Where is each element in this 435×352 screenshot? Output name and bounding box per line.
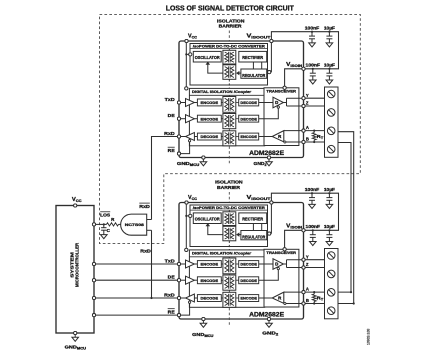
regulator to T2 wire with arrow (U2 bottom) [237, 234, 241, 236]
power transformer T1 (U2 bottom) [223, 212, 236, 226]
DE pin (U2 bottom) [177, 279, 180, 282]
DE buffer (U2 bottom) [186, 276, 195, 284]
digital isolation title rule (U1 top) [189, 94, 264, 96]
TxD input wire (U1 top) [179, 102, 186, 104]
loss-of-signal detector dashed boundary [100, 14, 361, 243]
svg-text:RxD: RxD [164, 131, 175, 136]
svg-text:RxD: RxD [140, 249, 151, 254]
MCU-TxD wire [94, 263, 179, 265]
svg-text:Z: Z [306, 262, 309, 267]
ENCODE box (U2 bottom) [197, 277, 221, 284]
svg-text:isoPOWER DC-TO-DC CONVERTER: isoPOWER DC-TO-DC CONVERTER [193, 44, 265, 49]
isoPower DC-to-DC converter box (U2 bottom) [190, 205, 268, 247]
driver D triangle (U1 top) [259, 102, 273, 104]
RE internal wire (U1 top) [179, 142, 190, 154]
DE input wire (U1 top) [179, 118, 186, 120]
Z pin (U1 top) [302, 104, 305, 107]
resistor R [107, 223, 119, 226]
svg-text:10902-108: 10902-108 [367, 329, 371, 345]
rectifier-regulator wires (U1 top) [252, 62, 254, 69]
B pin (U2 bottom) [302, 302, 305, 305]
svg-text:100nF: 100nF [306, 224, 321, 229]
isoPower output pin (U2 bottom) [268, 232, 271, 235]
100nF cap C3 (U1 top) [312, 69, 314, 73]
RxD pin (U2 bottom) [177, 296, 180, 299]
receiver B input bubble and wire (U2 bottom) [284, 303, 286, 305]
svg-text:100nF: 100nF [305, 187, 320, 192]
RxD buffer enable circle (U1 top) [189, 140, 191, 142]
TRANSCEIVER box (U1 top) [264, 88, 299, 146]
svg-text:OSCILLATOR: OSCILLATOR [195, 216, 220, 221]
GND2 ground symbol (U2 bottom) [268, 319, 270, 323]
svg-text:DIGITAL ISOLATION iCoupler: DIGITAL ISOLATION iCoupler [192, 89, 251, 94]
A wire to terminal (U1 top) [304, 130, 325, 132]
B wire to terminal (U2 bottom) [304, 303, 325, 305]
Y pin (U1 top) [302, 97, 305, 100]
terminal screw 4 (U2 bottom) [327, 307, 335, 315]
channel transformer (U2 bottom row 1) [221, 263, 223, 265]
rectifier-regulator wires (U2 bottom) [252, 224, 254, 231]
channel transformer (U1 top row 1) [221, 102, 223, 104]
RE pin (U1 top) [177, 152, 180, 155]
DECODE box (U1 top) [197, 133, 221, 140]
VISOOUT pin (U2 bottom) [270, 201, 273, 204]
transceiver VISOIN pin circle (U2 bottom) [283, 248, 286, 251]
regulator to T2 wire with arrow (U1 top) [237, 72, 241, 74]
RxD-bar wire from top chip [152, 137, 180, 220]
oscillator supply wire (U1 top) [186, 53, 189, 55]
ENCODE box (U1 top) [197, 115, 221, 122]
100nF cap C3 (U2 bottom) [312, 230, 314, 234]
TxD buffer-to-ENCODE wire (U1 top) [194, 102, 197, 104]
LOS node junction [103, 223, 105, 225]
termination resistor RT (U1 top) [313, 130, 315, 132]
terminal screw 4 (U1 top) [327, 145, 335, 153]
TxD buffer-to-ENCODE wire (U2 bottom) [194, 263, 197, 265]
DE pin (U1 top) [177, 117, 180, 120]
svg-text:DE: DE [168, 113, 175, 118]
isolation barrier dashed line (U2 bottom) [228, 192, 230, 203]
svg-text:100nF: 100nF [306, 62, 321, 67]
svg-text:RE: RE [168, 310, 175, 315]
transformer stack stubs (U1 top) [228, 112, 230, 113]
B pin (U1 top) [302, 140, 305, 143]
svg-text:A: A [306, 125, 309, 130]
svg-text:BARRIER: BARRIER [217, 185, 241, 190]
oscillator supply pin circle (U2 bottom) [189, 214, 192, 217]
svg-text:DECODE: DECODE [240, 117, 257, 121]
channel transformer (U1 top row 2) [221, 118, 223, 120]
svg-text:ADM2682E: ADM2682E [249, 311, 285, 318]
receiver A input wire (U1 top) [284, 130, 304, 132]
TxD input wire (U2 bottom) [179, 263, 186, 265]
TxD pin (U1 top) [177, 101, 180, 104]
isolation barrier dashed line (U1 top) [228, 31, 230, 42]
svg-text:RE: RE [168, 148, 175, 153]
receiver B input bubble and wire (U1 top) [284, 141, 286, 143]
ENCODE box (U1 top) [197, 99, 221, 106]
svg-text:ISOLATION: ISOLATION [215, 179, 243, 184]
RxD wire to bottom chip [151, 230, 153, 298]
DE input wire (U2 bottom) [179, 279, 186, 281]
svg-text:10µF: 10µF [324, 224, 335, 229]
svg-text:LOS: LOS [100, 213, 110, 218]
terminal screw 1 (U2 bottom) [327, 252, 335, 260]
Y wire to terminal (U1 top) [304, 97, 325, 99]
feedback transformer T2 (U2 bottom) [223, 226, 236, 241]
MCU-RE wire [94, 314, 179, 316]
isoPower title rule (U2 bottom) [190, 209, 268, 211]
barrier ticks below T2 (U2 bottom) [228, 241, 230, 250]
oscillator box (U1 top) [193, 51, 221, 62]
DECODE box (U1 top) [239, 115, 259, 122]
svg-text:D: D [275, 100, 278, 105]
terminal screw 2 (U1 top) [327, 109, 335, 117]
svg-text:B: B [306, 137, 309, 142]
receiver A input wire (U2 bottom) [284, 291, 304, 293]
svg-text:BARRIER: BARRIER [219, 24, 243, 29]
isoPower DC-to-DC converter box (U1 top) [190, 44, 268, 86]
ENCODE box (U2 bottom) [197, 261, 221, 268]
isoPower output pin (U1 top) [268, 71, 271, 74]
10uF cap C2 (U1 top) [328, 32, 330, 36]
barrier ticks below T2 (U1 top) [228, 79, 230, 88]
Y wire to terminal (U2 bottom) [304, 259, 325, 261]
channel transformer (U2 bottom row 2) [221, 279, 223, 281]
svg-text:100nF: 100nF [305, 26, 320, 31]
RxD buffer enable circle (U2 bottom) [189, 301, 191, 303]
bus wire B (top) to A (bottom) [338, 143, 352, 293]
feedback wire to oscillator (U1 top) [208, 64, 224, 73]
barrier tick above channel transformer 1 (U2 bottom) [228, 257, 230, 258]
svg-text:ENCODE: ENCODE [201, 263, 219, 267]
terminal screw 1 (U1 top) [327, 90, 335, 98]
regulator box (U2 bottom) [241, 231, 267, 240]
DECODE box (U2 bottom) [239, 277, 259, 284]
A pin (U1 top) [302, 129, 305, 132]
svg-text:isoPOWER DC-TO-DC CONVERTER: isoPOWER DC-TO-DC CONVERTER [193, 205, 265, 210]
svg-text:10µF: 10µF [324, 62, 335, 67]
GND2 pin (U2 bottom) [267, 317, 270, 320]
GND_MCU pin (U2 bottom) [202, 317, 205, 320]
svg-text:DECODE: DECODE [240, 279, 257, 283]
oscillator box (U2 bottom) [193, 213, 221, 224]
pin circles (redrawn on top of wires) [185, 39, 188, 42]
barrier tick above T1 (U1 top) [228, 49, 230, 51]
svg-text:10µF: 10µF [324, 26, 335, 31]
bus junction dot at bottom B row [353, 302, 355, 304]
svg-text:TxD: TxD [165, 97, 176, 102]
TxD buffer (U1 top) [186, 99, 195, 107]
DE buffer-to-ENCODE wire (U2 bottom) [194, 279, 197, 281]
VCC junction (U2 bottom) [185, 215, 187, 217]
driver enable wire (U1 top) [277, 106, 279, 108]
svg-text:RECTIFIER: RECTIFIER [242, 216, 263, 221]
GND2 pin (U1 top) [267, 156, 270, 159]
GND_MCU ground symbol (U2 bottom) [202, 319, 204, 323]
ADM2682E package outline (U2 bottom) [179, 203, 304, 320]
Y pin (U2 bottom) [302, 258, 305, 261]
svg-text:Y: Y [306, 254, 309, 259]
MCU DE pin [92, 279, 95, 282]
digital isolation box (U1 top) [189, 88, 264, 145]
VCC internal wire (U2 bottom) [185, 203, 187, 250]
svg-text:REGULATOR: REGULATOR [242, 235, 265, 240]
svg-text:Y: Y [306, 93, 309, 98]
oscillator supply wire (U2 bottom) [186, 215, 189, 217]
VISOIN wire (U2 bottom) [285, 230, 304, 248]
B wire to terminal (U1 top) [304, 141, 325, 143]
DE buffer (U1 top) [186, 115, 195, 123]
RxD buffer-to-DECODE wire (U1 top) [194, 136, 197, 138]
svg-text:REGULATOR: REGULATOR [242, 73, 265, 78]
VISOIN pin (U1 top) [302, 67, 305, 70]
channel transformer (U1 top row 3) [221, 136, 223, 138]
RxD input wire (U2 bottom) [179, 297, 186, 299]
oscillator supply pin circle (U1 top) [189, 53, 192, 56]
svg-text:RxD: RxD [139, 204, 150, 209]
C ground symbol [101, 235, 108, 239]
isoPower title rule (U1 top) [190, 48, 268, 50]
barrier tick above T1 (U2 bottom) [228, 210, 230, 212]
10uF cap C4 (U1 top) [328, 69, 330, 73]
VCC pin (U2 bottom) [185, 201, 188, 204]
svg-text:MICROCONTROLLER: MICROCONTROLLER [75, 242, 80, 287]
driver D triangle (U2 bottom) [259, 263, 273, 265]
RE pin (U2 bottom) [177, 314, 180, 317]
VISOOUT external rail (U2 bottom) [271, 193, 338, 230]
svg-text:A: A [306, 287, 309, 292]
ENCODE box (U2 bottom) [239, 295, 259, 302]
100nF cap C1 (U1 top) [311, 32, 313, 36]
DECODE box (U2 bottom) [197, 295, 221, 302]
GND_MCU ground symbol (U1 top) [202, 158, 204, 162]
svg-text:ENCODE: ENCODE [201, 117, 219, 121]
svg-text:DE: DE [168, 275, 175, 280]
svg-text:ENCODE: ENCODE [201, 101, 219, 105]
power transformer T1 (U1 top) [223, 50, 236, 64]
RxD input wire (U1 top) [179, 136, 186, 138]
digital isolation title rule (U2 bottom) [189, 256, 264, 258]
svg-text:DECODE: DECODE [201, 297, 219, 301]
Z wire to terminal (U2 bottom) [304, 267, 325, 269]
driver enable wire (U2 bottom) [277, 268, 279, 270]
svg-text:LOSS OF SIGNAL DETECTOR CIRCUI: LOSS OF SIGNAL DETECTOR CIRCUIT [166, 3, 295, 12]
bus junction dot at bottom A row [350, 291, 352, 293]
gate input stub 2 [147, 229, 152, 231]
VCC internal wire (U1 top) [185, 41, 187, 88]
RxD junction at MCU wire [150, 297, 152, 299]
RxD buffer-to-DECODE wire (U2 bottom) [194, 297, 197, 299]
svg-text:ADM2682E: ADM2682E [249, 150, 285, 157]
svg-text:ENCODE: ENCODE [201, 279, 219, 283]
driver output wires to Y Z (U1 top) [283, 102, 286, 104]
svg-text:ENCODE: ENCODE [240, 297, 257, 301]
screw terminal block (U2 bottom) [325, 249, 339, 319]
feedback transformer T2 (U1 top) [223, 65, 236, 80]
terminal screw 2 (U2 bottom) [327, 270, 335, 278]
regulator box (U1 top) [241, 69, 267, 78]
terminal screw 3 (U2 bottom) [327, 289, 335, 297]
svg-text:D: D [275, 262, 278, 267]
bus wire A (top) to B (bottom) [338, 132, 354, 304]
channel transformer (U2 bottom row 3) [221, 297, 223, 299]
svg-text:DIGITAL ISOLATION iCoupler: DIGITAL ISOLATION iCoupler [192, 251, 251, 256]
feedback wire to oscillator (U2 bottom) [208, 225, 224, 234]
ENCODE box (U1 top) [239, 133, 259, 140]
svg-text:R: R [278, 134, 281, 139]
VISOOUT internal wire (U2 bottom) [268, 233, 272, 235]
RxD pin (U1 top) [177, 135, 180, 138]
screw terminal block (U1 top) [325, 87, 339, 157]
DECODE box (U1 top) [239, 99, 259, 106]
svg-text:DECODE: DECODE [240, 263, 257, 267]
digital isolation box (U2 bottom) [189, 250, 264, 307]
ADM2682E package outline (U1 top) [179, 41, 304, 158]
10uF cap C4 (U2 bottom) [328, 230, 330, 234]
VCC junction (U1 top) [185, 53, 187, 55]
VISOOUT pin (U1 top) [270, 39, 273, 42]
DE buffer-to-ENCODE wire (U1 top) [194, 118, 197, 120]
svg-text:R: R [278, 296, 281, 301]
rectifier box (U1 top) [239, 51, 267, 62]
RxD buffer (U2 bottom) [186, 294, 195, 302]
TRANSCEIVER box (U2 bottom) [264, 249, 299, 307]
svg-text:B: B [306, 298, 309, 303]
MCU RxD pin [92, 296, 95, 299]
digital isolation VCC pin circle (U1 top) [185, 87, 188, 90]
transceiver VISOIN pin circle (U1 top) [283, 86, 286, 89]
MCU LOS pin [92, 223, 95, 226]
RxD buffer (U1 top) [186, 133, 195, 141]
svg-text:TxD: TxD [165, 258, 176, 263]
GND2 ground symbol (U1 top) [268, 158, 270, 162]
receiver R triangle (U2 bottom) [259, 297, 273, 299]
A wire to terminal (U2 bottom) [304, 291, 325, 293]
driver output wires to Y Z (U2 bottom) [283, 263, 286, 265]
terminal screw 3 (U1 top) [327, 127, 335, 135]
svg-text:10µF: 10µF [324, 187, 335, 192]
barrier dashes below digital isolation box (U1 top) [228, 146, 230, 164]
VISOIN wire (U1 top) [285, 69, 304, 87]
100nF cap C1 (U2 bottom) [311, 193, 313, 197]
svg-text:DECODE: DECODE [201, 135, 219, 139]
svg-text:RxD: RxD [164, 292, 175, 297]
svg-text:NC7S08: NC7S08 [125, 222, 145, 227]
MCU ground pin [74, 331, 77, 334]
Z pin (U2 bottom) [302, 266, 305, 269]
RE internal wire (U2 bottom) [179, 303, 190, 315]
svg-text:Z: Z [306, 101, 309, 106]
GND_MCU pin (U1 top) [202, 156, 205, 159]
termination resistor RT (U2 bottom) [313, 291, 315, 293]
barrier tick above channel transformer 1 (U1 top) [228, 95, 230, 96]
gate input stub 1 [147, 219, 152, 221]
AND gate NC7S08 (mirrored) [121, 214, 147, 235]
MCU RE pin [92, 314, 95, 317]
MCU TxD pin [92, 262, 95, 265]
digital isolation VCC pin circle (U2 bottom) [185, 248, 188, 251]
VCC pin (U1 top) [185, 39, 188, 42]
10uF cap C2 (U2 bottom) [328, 193, 330, 197]
R to gate wire [119, 223, 121, 225]
DECODE box (U2 bottom) [239, 261, 259, 268]
MCU-DE wire [94, 279, 179, 281]
barrier dashes below digital isolation box (U2 bottom) [228, 308, 230, 326]
MCU VCC pin [74, 204, 77, 207]
svg-text:OSCILLATOR: OSCILLATOR [195, 55, 220, 60]
VISOOUT internal wire (U1 top) [268, 71, 272, 73]
TxD pin (U2 bottom) [177, 262, 180, 265]
VISOOUT external rail (U1 top) [271, 32, 338, 69]
transformer stack stubs (U2 bottom) [228, 274, 230, 275]
rectifier box (U2 bottom) [239, 213, 267, 224]
svg-text:TRANSCEIVER: TRANSCEIVER [266, 89, 296, 94]
MCU ground symbol [74, 333, 76, 337]
A pin (U2 bottom) [302, 291, 305, 294]
svg-text:ENCODE: ENCODE [240, 135, 257, 139]
VISOIN pin (U2 bottom) [302, 229, 305, 232]
Z wire to terminal (U1 top) [304, 105, 325, 107]
LOS wire [94, 223, 107, 225]
system microcontroller box [56, 206, 94, 334]
receiver R triangle (U1 top) [259, 136, 273, 138]
MCU-RxD wire [94, 297, 179, 299]
svg-text:DECODE: DECODE [240, 101, 257, 105]
svg-text:RECTIFIER: RECTIFIER [242, 55, 263, 60]
capacitor C [103, 224, 105, 227]
svg-text:TRANSCEIVER: TRANSCEIVER [266, 250, 296, 255]
TxD buffer (U2 bottom) [186, 260, 195, 268]
